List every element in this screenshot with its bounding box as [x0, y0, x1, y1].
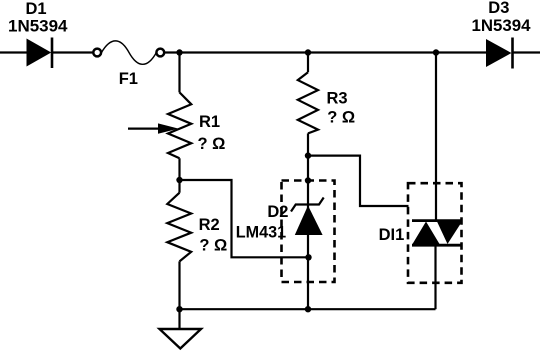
svg-text:F1: F1 [119, 70, 138, 88]
svg-text:D3: D3 [488, 0, 509, 17]
svg-text:? Ω: ? Ω [198, 135, 226, 153]
svg-text:LM431: LM431 [236, 223, 286, 241]
svg-text:1N5394: 1N5394 [8, 18, 68, 36]
svg-text:1N5394: 1N5394 [472, 17, 532, 35]
svg-text:? Ω: ? Ω [327, 109, 355, 127]
svg-text:R3: R3 [327, 89, 348, 107]
svg-text:R2: R2 [199, 216, 220, 234]
svg-text:DI1: DI1 [379, 226, 405, 244]
svg-text:? Ω: ? Ω [199, 236, 227, 254]
svg-text:D1: D1 [26, 0, 47, 18]
svg-text:D2: D2 [267, 203, 288, 221]
svg-text:R1: R1 [199, 113, 220, 131]
